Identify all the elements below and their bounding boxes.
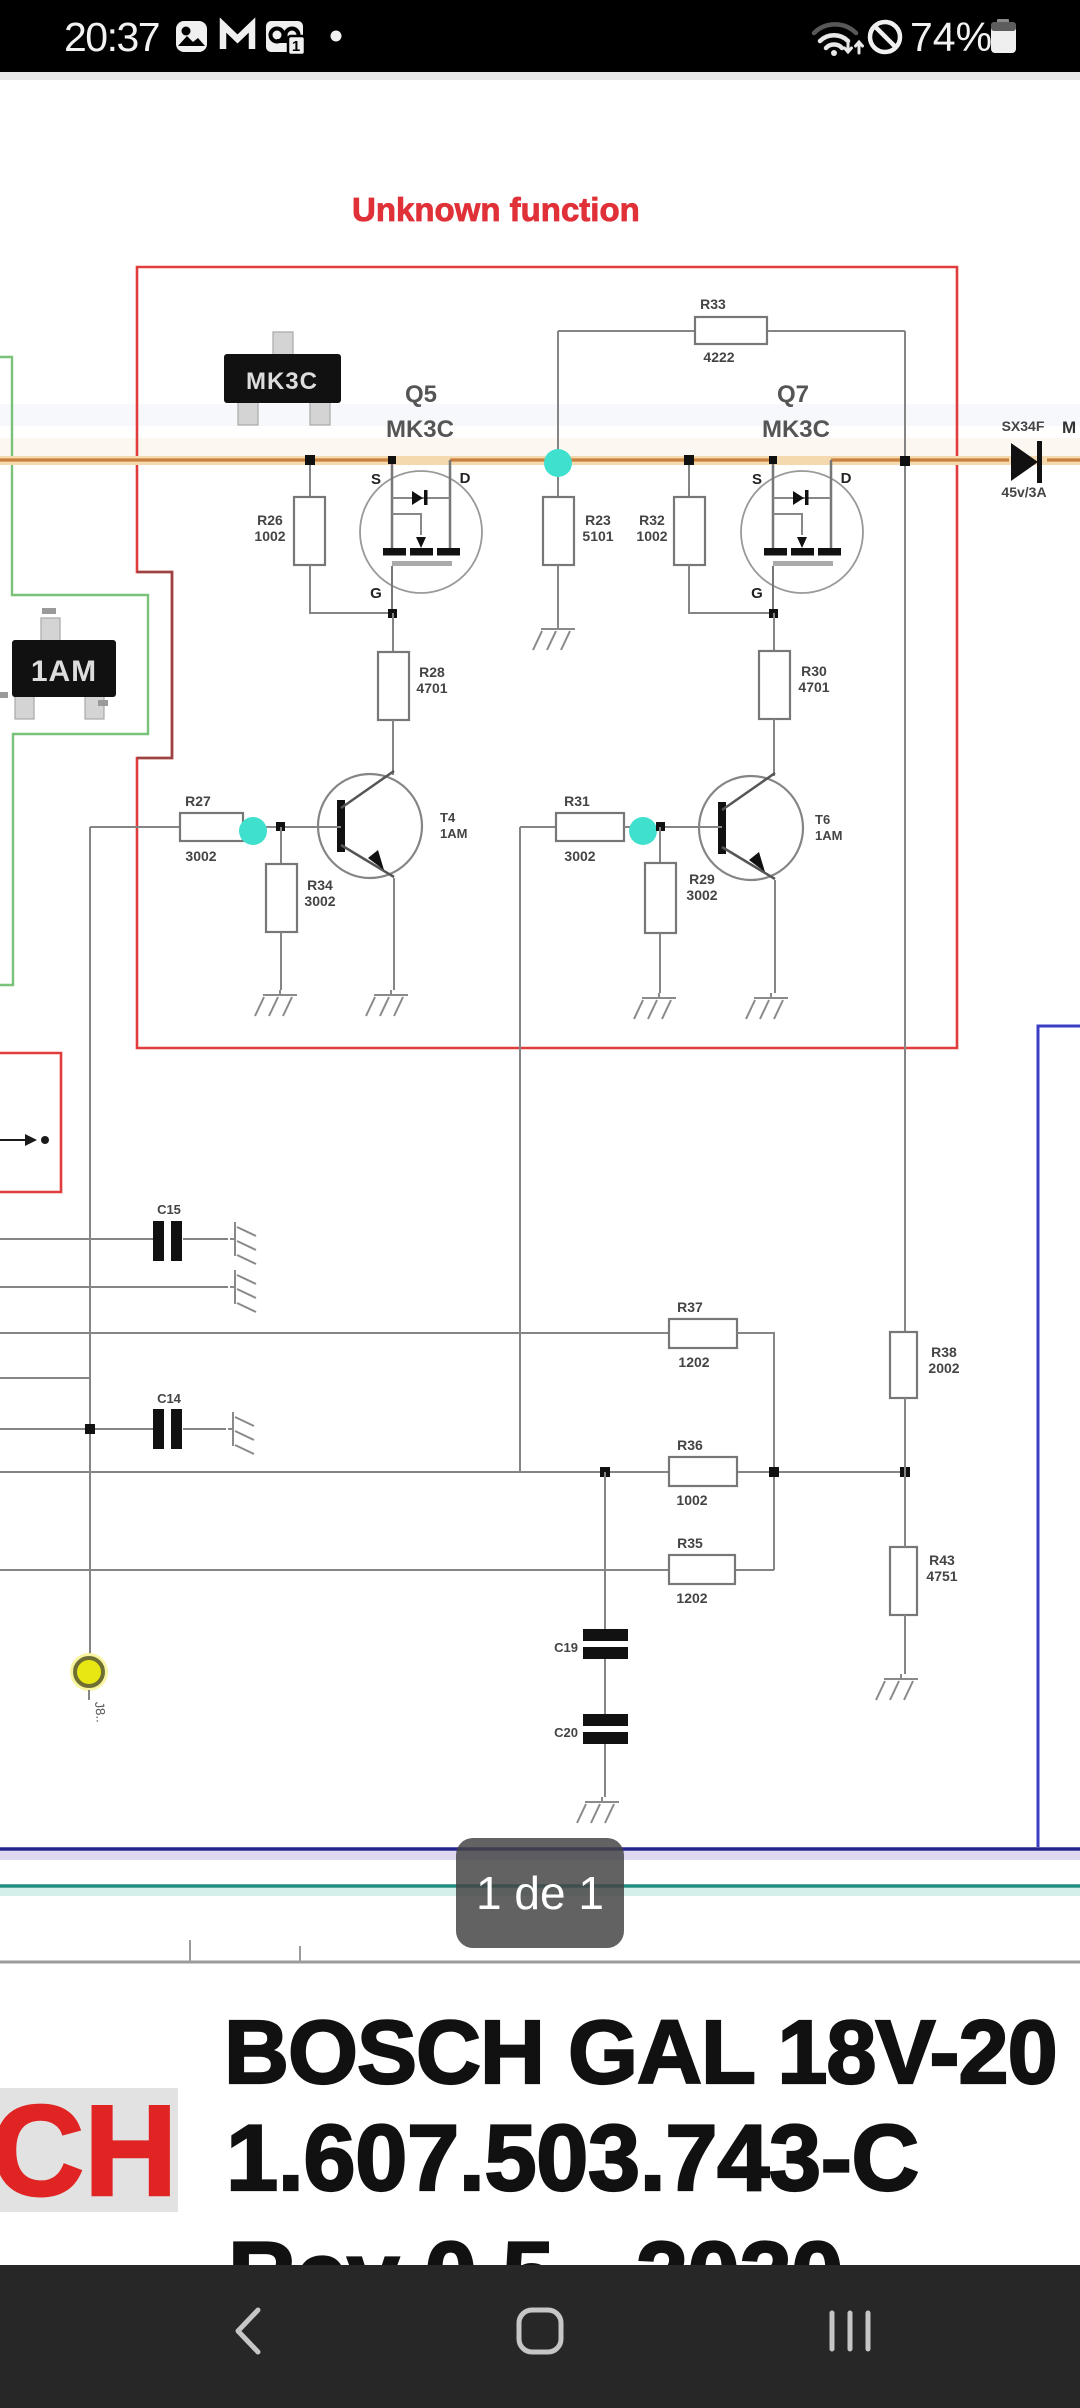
- svg-text:Q5: Q5: [405, 381, 437, 408]
- node cyan dot at R31: [629, 817, 657, 845]
- svg-text:C15: C15: [157, 1202, 181, 1217]
- title-block tick 2: [299, 1946, 301, 1963]
- svg-text:R36: R36: [677, 1437, 703, 1453]
- wire R28 to T4 collector: [392, 720, 394, 775]
- node rail R32: [684, 455, 694, 465]
- wire R26 top: [309, 460, 311, 497]
- node T4 base junction: [276, 822, 285, 831]
- wire halo band above orange rail: [0, 438, 1080, 458]
- ground under R34: [255, 990, 297, 1016]
- svg-text:R321002: R321002: [636, 512, 667, 544]
- wire stub at left edge y1378: [0, 1377, 90, 1379]
- capacitor C19: [583, 1629, 628, 1659]
- svg-text:Unknown function: Unknown function: [352, 191, 640, 228]
- svg-text:R261002: R261002: [254, 512, 285, 544]
- resistor R33: [695, 317, 767, 344]
- red highlight box (Unknown function): [137, 267, 957, 1048]
- wire R23 bottom: [557, 565, 559, 624]
- wire R31 left: [520, 826, 556, 828]
- node R38 bottom junction: [900, 1467, 910, 1477]
- resistor R32: [674, 497, 705, 565]
- node Q5 gate junction: [388, 609, 397, 618]
- teal line halo: [0, 1888, 1080, 1896]
- node rail Q7 S: [769, 456, 777, 464]
- ground right of C14: [228, 1412, 254, 1454]
- ground under T4: [366, 990, 408, 1016]
- wire R32 top: [688, 460, 690, 497]
- capacitor C20: [583, 1714, 628, 1744]
- gallery icon: [176, 21, 207, 52]
- wire Q7 gate to R30: [773, 613, 775, 651]
- wire vertical x90 (R27 net to J8): [89, 827, 91, 1657]
- wire bus y1570: [0, 1569, 774, 1571]
- navigation bar: [0, 2265, 1080, 2408]
- svg-text:T61AM: T61AM: [815, 812, 842, 843]
- wire R34 bottom: [280, 932, 282, 990]
- transistor T4 (1AM): [318, 771, 422, 878]
- svg-text:C19: C19: [554, 1640, 578, 1655]
- wire bus y1333: [0, 1332, 669, 1334]
- svg-text:SX34F: SX34F: [1002, 418, 1045, 434]
- svg-text:S: S: [752, 471, 762, 488]
- wire bus y1287: [0, 1286, 228, 1288]
- gmail icon: [223, 25, 252, 49]
- MK3C package (SOT-23) leads: [238, 332, 330, 425]
- wire C19-C20: [604, 1659, 606, 1715]
- svg-text:MK3C: MK3C: [386, 416, 454, 443]
- wire T4 emitter down: [393, 878, 395, 990]
- wire R29 bottom: [659, 933, 661, 993]
- wire R23 top: [557, 460, 559, 497]
- svg-text:3002: 3002: [185, 848, 216, 864]
- node cyan dot on rail: [544, 449, 572, 477]
- node T6 base junction: [656, 822, 665, 831]
- wire vertical x905 (R33/R38 net): [904, 331, 906, 1334]
- orange power rail glow: [0, 456, 1080, 465]
- arrow with node inside small red box: [0, 1134, 49, 1146]
- svg-text:R304701: R304701: [798, 663, 829, 695]
- wire R26 bottom to Q5 gate: [310, 565, 392, 613]
- resistor R23: [543, 497, 574, 565]
- wire halo band blue tint: [0, 404, 1080, 426]
- wire R34 top: [280, 827, 282, 864]
- blue bottom frame line halo: [0, 1851, 1080, 1860]
- wire R33 left segment: [558, 330, 695, 332]
- wire R27 left: [90, 826, 180, 828]
- wire x905 R38-R43: [904, 1398, 906, 1547]
- 1AM package (SOT-23) leads: [15, 618, 104, 719]
- wire bus y1429: [0, 1428, 226, 1430]
- resistor R28: [378, 652, 409, 720]
- blue bottom frame line: [0, 1847, 1080, 1851]
- small red box (bottom-left, cut off): [0, 1053, 61, 1192]
- green box (left, partially off-screen): [0, 357, 148, 985]
- blue box (right/bottom page frame): [1038, 1026, 1080, 1847]
- wire R37 right corner: [737, 1333, 774, 1570]
- resistor R37: [669, 1319, 737, 1348]
- svg-text:D: D: [460, 470, 471, 487]
- svg-text:45v/3A: 45v/3A: [1001, 484, 1046, 500]
- wire T6 emitter down: [774, 880, 776, 993]
- notification dot: [331, 31, 342, 42]
- svg-text:J8..: J8..: [92, 1701, 109, 1723]
- ground at y1287: [230, 1270, 256, 1312]
- wire R43 bottom: [904, 1615, 906, 1674]
- svg-text:1: 1: [292, 38, 300, 55]
- transistor T6 (1AM): [699, 773, 803, 880]
- MK3C package body: [224, 354, 341, 403]
- gray title-block top line: [0, 1961, 1080, 1964]
- svg-text:R33: R33: [700, 296, 726, 312]
- resistor R36: [669, 1457, 737, 1486]
- ground under R23: [533, 624, 575, 650]
- svg-text:G: G: [751, 585, 763, 602]
- capacitor C15: [153, 1221, 182, 1261]
- block icon: [870, 22, 900, 52]
- back chevron: [238, 2310, 258, 2352]
- teal page line: [0, 1884, 1080, 1888]
- voicemail icon: [266, 21, 305, 55]
- node rail Q5 S: [388, 456, 396, 464]
- title block: [0, 1964, 1080, 2265]
- wire Q5 gate to R28: [392, 613, 394, 652]
- node bus-C19 junction: [600, 1467, 610, 1477]
- resistor R29: [645, 863, 676, 933]
- wire R33 left to rail node: [557, 331, 559, 460]
- wire bus y1472: [0, 1471, 905, 1473]
- resistor R34: [266, 864, 297, 932]
- svg-text:MK3C: MK3C: [762, 416, 830, 443]
- svg-text:1202: 1202: [678, 1354, 709, 1370]
- mosfet Q5 (MK3C): [360, 460, 482, 615]
- gray strip under status bar: [0, 72, 1080, 80]
- svg-text:S: S: [371, 471, 381, 488]
- svg-text:R235101: R235101: [582, 512, 613, 544]
- node Q7 gate junction: [769, 609, 778, 618]
- svg-text:R27: R27: [185, 793, 211, 809]
- wire C20 bottom: [604, 1744, 606, 1797]
- recents bars: [832, 2313, 868, 2349]
- svg-text:M: M: [1062, 418, 1076, 437]
- ground under R43: [876, 1674, 918, 1700]
- battery: [991, 19, 1016, 53]
- wire R31 right to T6 base: [624, 826, 722, 828]
- wire vertical x520 (R31 net down): [519, 827, 521, 1472]
- status bar: [0, 0, 1080, 72]
- svg-text:74%: 74%: [910, 14, 992, 60]
- svg-text:3002: 3002: [564, 848, 595, 864]
- svg-text:1202: 1202: [676, 1590, 707, 1606]
- node rail R26: [305, 455, 315, 465]
- svg-text:R35: R35: [677, 1535, 703, 1551]
- svg-text:C20: C20: [554, 1725, 578, 1740]
- svg-text:G: G: [370, 585, 382, 602]
- resistor R30: [759, 651, 790, 719]
- ground under C20: [577, 1797, 619, 1823]
- svg-text:MK3C: MK3C: [246, 368, 318, 395]
- resistor R43: [890, 1547, 917, 1615]
- svg-text:C14: C14: [157, 1391, 182, 1406]
- resistor R35: [669, 1555, 735, 1584]
- wifi icon: [814, 24, 863, 56]
- wire R32 bottom to Q7 gate: [689, 565, 773, 613]
- node J8 (yellow): [70, 1653, 108, 1700]
- svg-text:1AM: 1AM: [31, 655, 97, 688]
- svg-text:R343002: R343002: [304, 877, 335, 909]
- wire orange power rail: [0, 458, 1080, 461]
- svg-text:4222: 4222: [703, 349, 734, 365]
- node cyan dot at R27: [239, 817, 267, 845]
- svg-text:D: D: [841, 470, 852, 487]
- svg-text:R284701: R284701: [416, 664, 447, 696]
- diode SX34F: [1011, 441, 1042, 483]
- wire R33 right segment: [767, 330, 905, 332]
- page indicator badge: [456, 1838, 624, 1948]
- resistor R26: [294, 497, 325, 565]
- svg-text:1002: 1002: [676, 1492, 707, 1508]
- wire C19 top: [604, 1472, 606, 1630]
- ground under R29: [634, 993, 676, 1019]
- svg-text:R37: R37: [677, 1299, 703, 1315]
- wire R27 right to T4 base: [243, 826, 341, 828]
- svg-text:Q7: Q7: [777, 381, 809, 408]
- resistor R38: [890, 1332, 917, 1398]
- resistor R31: [556, 813, 624, 841]
- svg-text:R293002: R293002: [686, 871, 717, 903]
- title-block tick 1: [189, 1940, 191, 1963]
- ground right of C15: [230, 1222, 256, 1264]
- wire bus y1239: [0, 1238, 228, 1240]
- mosfet Q7 (MK3C): [741, 460, 863, 615]
- wire R30 to T6 collector: [773, 719, 775, 776]
- svg-text:T41AM: T41AM: [440, 810, 467, 841]
- resistor R27: [180, 813, 243, 841]
- 1AM package body: [12, 640, 116, 697]
- capacitor C14: [153, 1409, 182, 1449]
- svg-text:R31: R31: [564, 793, 590, 809]
- 1AM pin marks: [0, 608, 108, 706]
- home squircle: [519, 2310, 561, 2352]
- red box notch shading: [137, 572, 172, 758]
- node R36 right junction: [769, 1467, 779, 1477]
- svg-text:R434751: R434751: [926, 1552, 957, 1584]
- wire R29 top: [659, 827, 661, 863]
- svg-text:R382002: R382002: [928, 1344, 959, 1376]
- node rail x905: [900, 456, 910, 466]
- node x90 bus junction: [85, 1424, 95, 1434]
- ground under T6: [746, 993, 788, 1019]
